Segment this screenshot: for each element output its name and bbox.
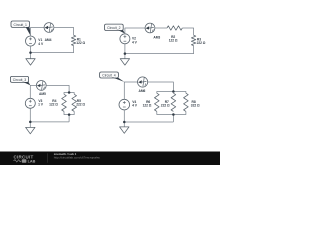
wire R2 to R3 top bbox=[182, 28, 193, 35]
label R2 122 ohm bbox=[169, 35, 178, 43]
wire bottom to V4 bbox=[124, 110, 173, 127]
CircuitLab logo battery box bbox=[22, 159, 27, 163]
CircuitLab logo text CIRCUIT bbox=[14, 154, 34, 159]
label R1 122 ohm bbox=[76, 37, 85, 45]
junction node top bar bbox=[68, 91, 71, 94]
svg-text:4 V: 4 V bbox=[132, 41, 138, 45]
voltage source V3 bbox=[25, 98, 35, 108]
wire bottom to V3 bbox=[30, 108, 69, 127]
svg-text:Circuit_1: Circuit_1 bbox=[14, 23, 27, 27]
svg-text:Circuit_2: Circuit_2 bbox=[107, 26, 120, 30]
callout pointer to V2 bbox=[119, 30, 125, 33]
circuit label Circuit_1 bbox=[11, 21, 30, 27]
bottom bar of R6/R7/R8 network bbox=[157, 111, 186, 122]
bottom bar of R4/R5 parallel pair bbox=[64, 111, 74, 122]
wire R1 bottom to V1 bottom bbox=[31, 46, 74, 59]
footer url text bbox=[54, 156, 101, 160]
label AM4 bbox=[45, 38, 52, 42]
svg-text:AM3: AM3 bbox=[153, 36, 160, 40]
resistor R6 bbox=[155, 93, 160, 111]
junction node bottom bar bbox=[68, 113, 71, 116]
voltage source V2 bbox=[120, 34, 130, 44]
svg-text:222 Ω: 222 Ω bbox=[161, 103, 170, 107]
callout pointer to V1 bbox=[26, 27, 31, 36]
junction node at V1 bottom bbox=[29, 51, 32, 54]
resistor R2 (horizontal) bbox=[167, 26, 182, 30]
ammeter AM3 bbox=[145, 23, 155, 33]
label V3 1 V bbox=[38, 99, 44, 107]
wire AM6 to parallel network bbox=[148, 82, 174, 92]
svg-text:1 V: 1 V bbox=[38, 102, 44, 106]
svg-text:Circuit_4: Circuit_4 bbox=[102, 74, 115, 78]
label R5 222 ohm bbox=[76, 99, 85, 107]
wire AM3 to R2 bbox=[155, 27, 167, 29]
resistor R7 bbox=[171, 93, 176, 111]
footer title text bbox=[54, 152, 77, 156]
wire AM5 to parallel pair bbox=[46, 85, 69, 92]
circuit label Circuit_3 bbox=[10, 76, 28, 82]
ammeter AM6 bbox=[138, 77, 148, 87]
wire AM4 to R1 top bbox=[54, 28, 74, 36]
label R8 322 ohm bbox=[191, 100, 200, 107]
junction node at V2 bottom bbox=[124, 52, 127, 55]
svg-text:122 Ω: 122 Ω bbox=[76, 41, 85, 45]
resistor R1 bbox=[71, 35, 75, 45]
label R3 222 ohm bbox=[197, 37, 206, 45]
svg-text:AM5: AM5 bbox=[39, 92, 46, 96]
CircuitLab logo LAB bbox=[28, 160, 36, 164]
label R4 122 ohm bbox=[49, 99, 58, 107]
label R7 222 ohm bbox=[161, 100, 170, 107]
circuit label Circuit_4 bbox=[100, 72, 119, 78]
label R6 122 ohm bbox=[143, 100, 152, 107]
ground circuit 3 bbox=[26, 127, 35, 133]
svg-text:122 Ω: 122 Ω bbox=[143, 103, 152, 107]
svg-text:4 V: 4 V bbox=[38, 42, 44, 46]
svg-text:Circuit_3: Circuit_3 bbox=[13, 78, 26, 82]
voltage source V1 bbox=[26, 36, 36, 46]
label V2 4 V bbox=[132, 37, 138, 45]
resistor R5 bbox=[72, 94, 77, 111]
svg-text:222 Ω: 222 Ω bbox=[76, 102, 85, 106]
wire V3 top to ammeter AM5 bbox=[30, 85, 36, 98]
ammeter AM4 bbox=[44, 23, 54, 33]
junction node top bar bbox=[172, 90, 175, 93]
voltage source V4 bbox=[119, 99, 130, 110]
label AM5 bbox=[39, 92, 46, 96]
ammeter AM5 bbox=[36, 81, 46, 91]
svg-text:http://circuitlab.com/c67esrzq: http://circuitlab.com/c67esrzqnahw bbox=[54, 156, 101, 160]
callout pointer to wire corner bbox=[24, 82, 31, 85]
svg-text:122 Ω: 122 Ω bbox=[49, 102, 58, 106]
resistor R3 bbox=[191, 35, 195, 45]
label AM6 bbox=[139, 89, 146, 93]
wire V1 top to ammeter AM4 bbox=[31, 28, 45, 37]
svg-text:222 Ω: 222 Ω bbox=[197, 41, 206, 45]
junction node at V3 bottom bbox=[29, 121, 32, 124]
top bar of R6/R7/R8 network bbox=[157, 92, 186, 94]
callout pointer to V4 wire corner bbox=[114, 78, 125, 82]
wire V2 top to ammeter AM3 bbox=[125, 28, 145, 34]
svg-text:AM6: AM6 bbox=[139, 89, 146, 93]
top bar of R4/R5 parallel pair bbox=[64, 93, 74, 95]
label V1 4 V bbox=[38, 38, 44, 46]
junction node bottom bar bbox=[172, 113, 175, 116]
label AM3 bbox=[153, 36, 160, 40]
ground circuit 1 bbox=[26, 59, 35, 65]
svg-text:AM4: AM4 bbox=[45, 38, 52, 42]
CircuitLab logo zigzag bbox=[14, 160, 22, 162]
svg-text:322 Ω: 322 Ω bbox=[191, 103, 200, 107]
ground circuit 4 bbox=[120, 127, 129, 133]
footer bar bbox=[0, 152, 220, 166]
svg-text:4 V: 4 V bbox=[132, 103, 138, 107]
wire R3 bottom to V2 bottom bbox=[125, 44, 194, 59]
wire V4 top to ammeter AM6 bbox=[124, 82, 137, 99]
resistor R8 bbox=[184, 93, 189, 111]
circuit label Circuit_2 bbox=[105, 24, 124, 30]
ground circuit 2 bbox=[120, 59, 129, 65]
label V4 4 V bbox=[132, 100, 138, 107]
junction node at V4 bottom bbox=[123, 121, 126, 124]
svg-text:122 Ω: 122 Ω bbox=[169, 38, 178, 42]
footer divider bbox=[46, 153, 48, 163]
resistor R4 bbox=[62, 94, 67, 111]
svg-text:LAB: LAB bbox=[28, 160, 36, 164]
